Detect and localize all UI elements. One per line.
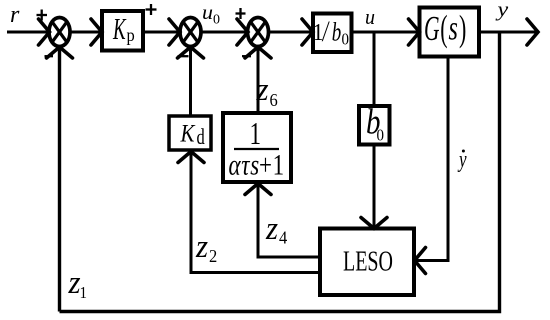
wire b0 to LESO	[373, 145, 376, 228]
svg-text:4: 4	[279, 228, 288, 248]
node z6 label	[256, 70, 270, 107]
svg-text:z: z	[256, 70, 270, 107]
arrowhead into summer S1	[39, 19, 50, 45]
arrowhead into summer S2	[169, 19, 180, 45]
svg-text:u: u	[202, 1, 213, 24]
arrowhead up into S3	[245, 47, 271, 58]
svg-text:G: G	[424, 10, 440, 49]
svg-text:K: K	[112, 11, 127, 46]
arrowhead down into LESO top	[361, 218, 387, 229]
svg-text:ατs: ατs	[229, 148, 260, 182]
svg-text:0: 0	[342, 31, 349, 49]
wire S1 to Kp	[70, 31, 101, 34]
arrowhead output	[527, 19, 538, 45]
svg-text:2: 2	[209, 246, 217, 266]
block 1/b0	[313, 14, 352, 53]
block Kd	[169, 116, 211, 150]
node y label	[495, 0, 509, 21]
label filter denominator alpha tau s + 1	[229, 148, 260, 182]
svg-text:r: r	[10, 2, 20, 28]
svg-text:6: 6	[270, 90, 279, 110]
svg-text:): )	[459, 8, 466, 49]
node u0 label	[202, 1, 213, 24]
svg-text:1: 1	[80, 284, 87, 302]
arrowhead up into Kd bottom	[178, 152, 204, 163]
wire ydot from G(s) to LESO	[416, 57, 448, 261]
svg-text:(: (	[440, 8, 447, 49]
svg-text:LESO: LESO	[343, 246, 393, 277]
label G(s)	[424, 10, 440, 49]
label z2	[195, 227, 209, 264]
label 1/b0	[313, 19, 324, 46]
plus sign at S3 input	[236, 8, 246, 19]
block LESO	[320, 229, 414, 296]
svg-text:z: z	[195, 227, 209, 264]
svg-text:z: z	[265, 209, 279, 246]
node r input label	[10, 2, 20, 28]
arrowhead into Kp	[91, 19, 102, 45]
fraction bar	[234, 148, 279, 150]
label filter numerator 1	[250, 116, 261, 152]
wire Kp to summer S2	[143, 31, 179, 34]
summer S3	[248, 18, 269, 47]
svg-text:+1: +1	[259, 148, 285, 182]
block G(s)	[420, 8, 480, 57]
node u label	[365, 4, 375, 29]
wire u node to b0	[373, 32, 376, 106]
wire y feedback outer loop with z1	[60, 32, 500, 312]
arrowhead up into filter bottom	[245, 184, 271, 195]
wire filter to S3	[257, 49, 260, 114]
arrowhead left into LESO right side	[415, 248, 426, 274]
block b0	[359, 106, 390, 145]
arrowhead up into S2	[178, 47, 204, 58]
svg-text:u: u	[365, 4, 375, 29]
arrowhead into summer S3	[237, 19, 248, 45]
label LESO	[343, 246, 393, 277]
svg-text:b: b	[332, 16, 342, 46]
svg-text:1: 1	[250, 116, 261, 152]
block filter 1/(ats+1)	[223, 113, 291, 182]
node z1 label	[68, 263, 82, 300]
arrowhead up into S1	[47, 47, 73, 58]
wire S2 to summer S3	[201, 31, 247, 34]
node ydot label	[457, 148, 467, 173]
minus sign at S3 feedback input	[242, 55, 251, 57]
plus sign after Kp	[146, 4, 157, 15]
wire feedback riser into S1	[58, 49, 61, 312]
minus sign at S1 feedback input	[45, 55, 54, 57]
node z4 label	[265, 209, 279, 246]
svg-text:0: 0	[213, 12, 220, 27]
svg-text:y: y	[495, 0, 509, 21]
wire 1/b0 to G(s) with node u	[352, 31, 419, 34]
wire z4 from LESO to filter	[258, 184, 320, 258]
svg-text:p: p	[127, 25, 135, 45]
minus sign at S2 feedback input	[178, 55, 189, 57]
summer S2	[180, 18, 201, 47]
svg-text:0: 0	[377, 127, 384, 145]
arrowhead into G(s)	[409, 19, 420, 45]
label Kd	[180, 120, 196, 148]
plus sign at S1 input	[37, 10, 48, 21]
svg-text:/: /	[321, 14, 330, 48]
arrowhead into block 1/b0	[302, 19, 313, 45]
svg-text:K: K	[180, 120, 196, 148]
summer S1	[49, 18, 70, 47]
label b0	[366, 103, 380, 143]
svg-text:d: d	[197, 126, 205, 150]
svg-text:s: s	[449, 9, 458, 47]
label Kp	[112, 11, 127, 46]
wire S3 to block 1/b0	[269, 31, 312, 34]
wire r to summer S1	[7, 31, 48, 34]
block Kp	[102, 11, 143, 51]
wire G(s) to output y	[479, 31, 537, 34]
wire z2 from LESO to Kd	[191, 152, 320, 273]
wire Kd to S2	[189, 49, 192, 117]
